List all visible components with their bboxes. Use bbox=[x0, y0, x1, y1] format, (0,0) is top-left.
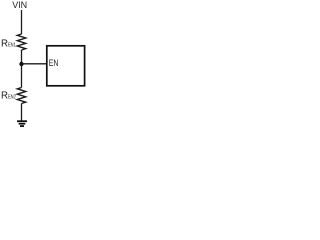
wire node to EN pin bbox=[22, 63, 48, 65]
IC box (EN input block) bbox=[47, 46, 85, 86]
svg-text:VIN: VIN bbox=[12, 0, 27, 10]
svg-text:EN: EN bbox=[49, 58, 59, 68]
svg-text:REN2: REN2 bbox=[1, 90, 16, 101]
wire VIN to R_EN1 top bbox=[21, 10, 23, 34]
ground bbox=[17, 121, 27, 126]
wire R_EN2 bottom to ground bbox=[21, 104, 23, 122]
resistor R_EN1 bbox=[17, 34, 25, 50]
junction node dot bbox=[19, 62, 23, 66]
wire R_EN1 bottom to R_EN2 top (through node) bbox=[21, 50, 23, 88]
svg-text:REN1: REN1 bbox=[1, 38, 16, 49]
resistor R_EN2 bbox=[17, 88, 25, 104]
